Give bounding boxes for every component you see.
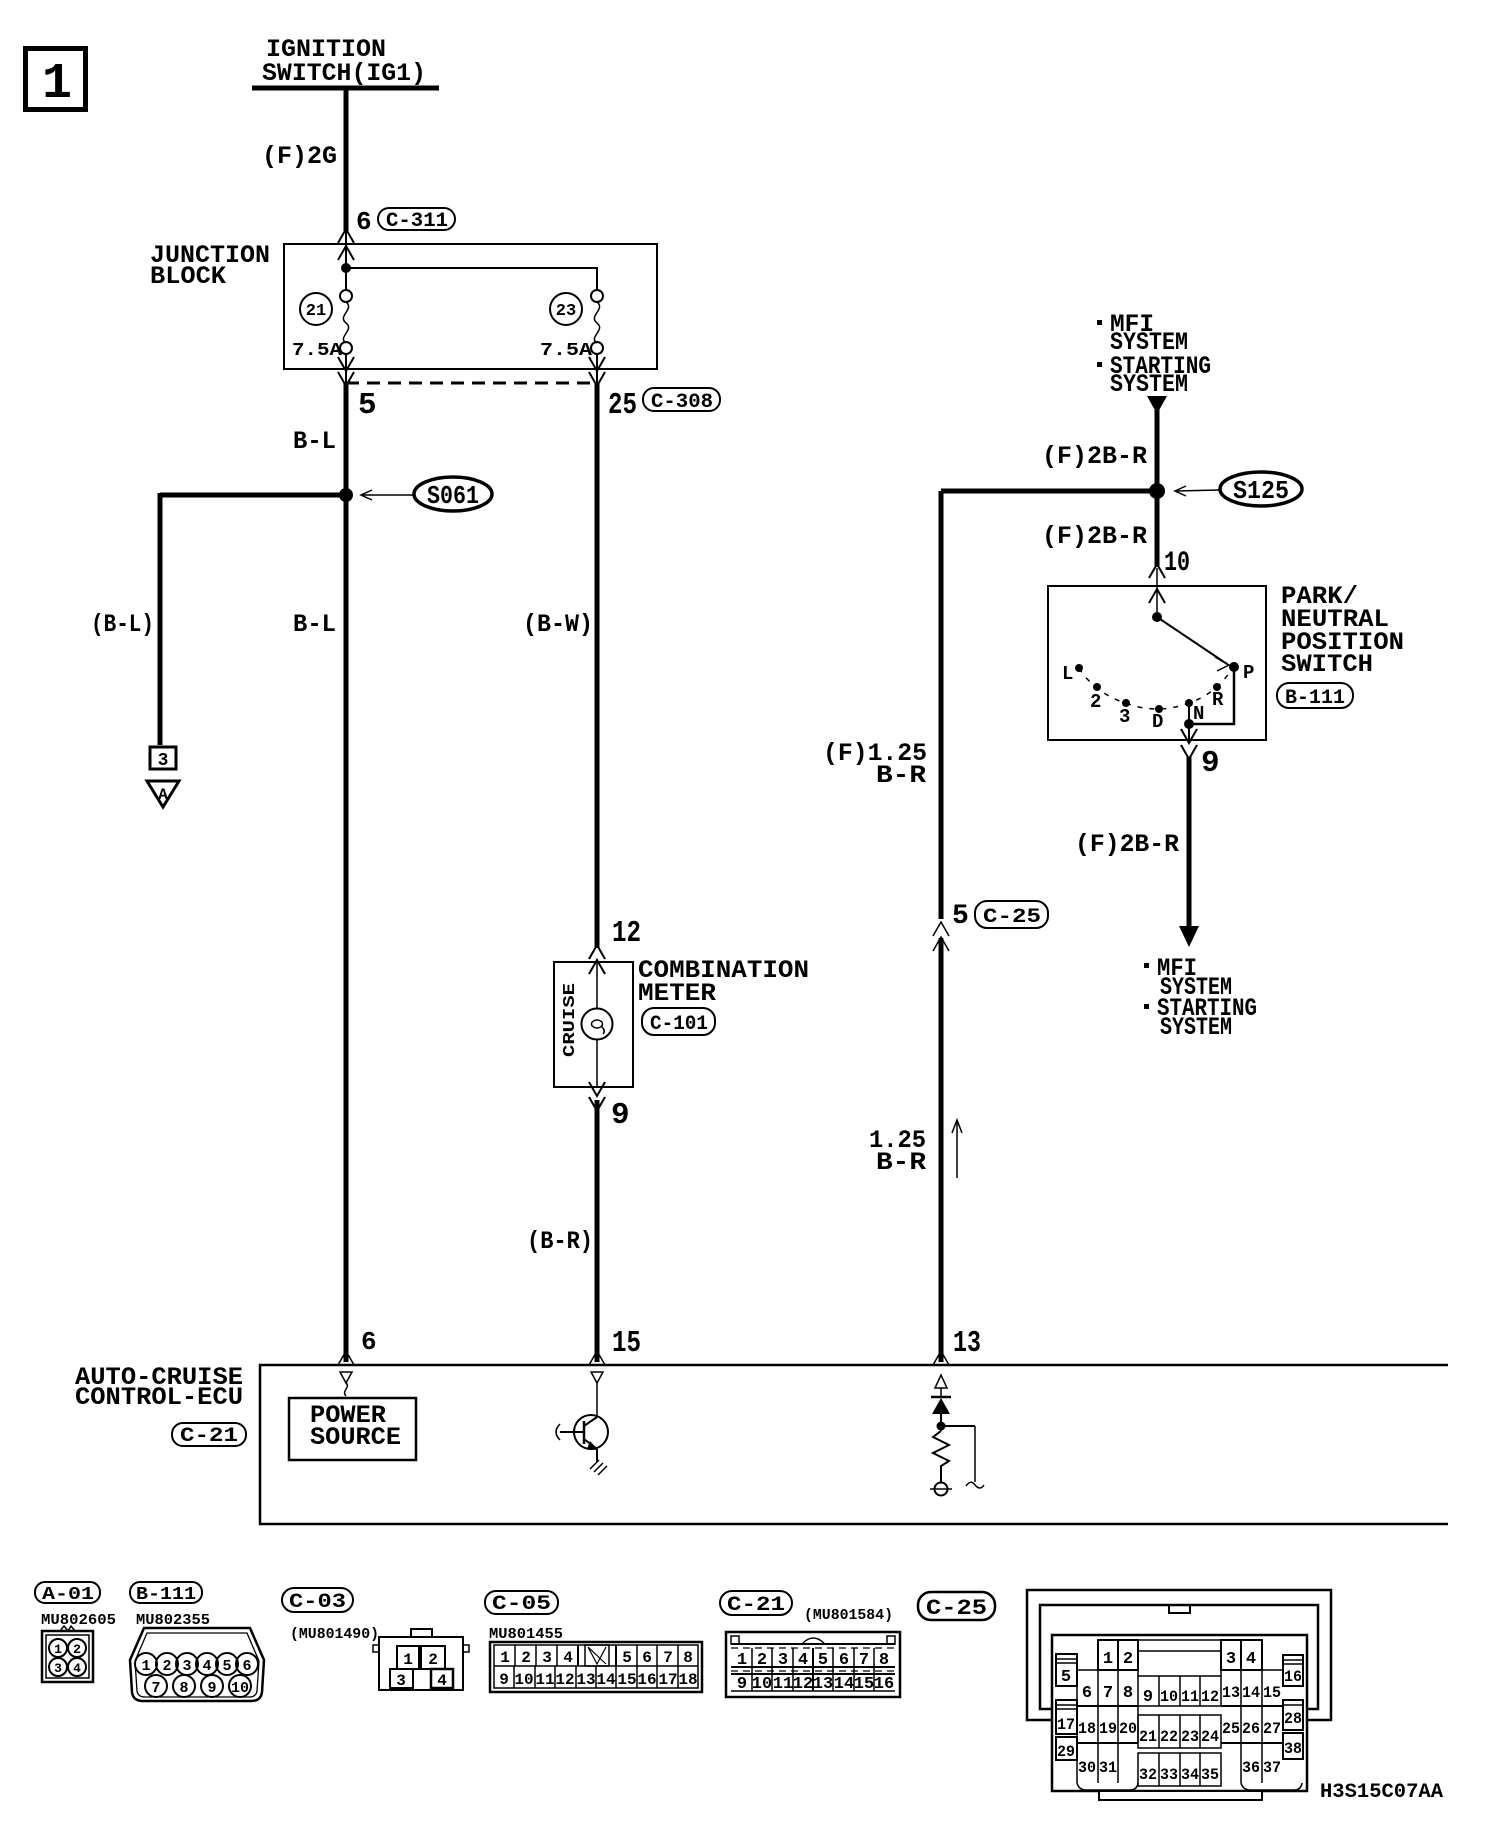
- svg-text:1: 1: [42, 56, 72, 113]
- svg-text:4: 4: [1246, 1650, 1256, 1669]
- svg-text:3: 3: [778, 1651, 788, 1670]
- svg-text:2: 2: [1090, 691, 1101, 713]
- svg-text:BLOCK: BLOCK: [150, 262, 226, 291]
- svg-text:10: 10: [231, 1680, 249, 1697]
- svg-text:2: 2: [73, 1642, 81, 1657]
- svg-text:15: 15: [1263, 1684, 1281, 1702]
- svg-text:2: 2: [162, 1658, 171, 1675]
- svg-text:32: 32: [1139, 1766, 1157, 1784]
- svg-text:SYSTEM: SYSTEM: [1110, 370, 1188, 399]
- svg-text:10: 10: [752, 1675, 772, 1694]
- svg-text:3: 3: [1226, 1650, 1236, 1669]
- svg-text:(F)2B-R: (F)2B-R: [1042, 442, 1147, 471]
- svg-text:7: 7: [1103, 1684, 1113, 1703]
- svg-text:21: 21: [1139, 1728, 1157, 1746]
- svg-text:3: 3: [158, 751, 169, 771]
- svg-text:6: 6: [1082, 1684, 1092, 1703]
- svg-text:4: 4: [437, 1672, 447, 1690]
- svg-text:6: 6: [356, 207, 372, 237]
- svg-text:C-05: C-05: [492, 1593, 551, 1616]
- svg-text:3: 3: [1119, 706, 1130, 728]
- svg-text:METER: METER: [638, 979, 716, 1008]
- svg-text:9: 9: [611, 1098, 630, 1133]
- svg-text:MU802605: MU802605: [41, 1612, 116, 1629]
- svg-text:5: 5: [222, 1658, 231, 1675]
- svg-text:A-01: A-01: [42, 1585, 94, 1605]
- svg-text:14: 14: [596, 1671, 616, 1689]
- svg-text:B-111: B-111: [1285, 687, 1345, 710]
- svg-text:SWITCH(IG1): SWITCH(IG1): [262, 59, 426, 88]
- svg-text:16: 16: [874, 1675, 894, 1694]
- svg-text:7: 7: [859, 1651, 869, 1670]
- svg-text:7: 7: [151, 1680, 160, 1697]
- svg-text:(F)2G: (F)2G: [262, 142, 337, 171]
- svg-text:B-111: B-111: [136, 1585, 196, 1605]
- svg-text:B-R: B-R: [876, 761, 926, 790]
- svg-text:18: 18: [1078, 1720, 1096, 1738]
- svg-text:10: 10: [514, 1671, 533, 1689]
- svg-text:(F)2B-R: (F)2B-R: [1042, 522, 1147, 551]
- svg-text:MU802355: MU802355: [136, 1612, 210, 1629]
- svg-text:16: 16: [1284, 1668, 1302, 1686]
- svg-text:27: 27: [1263, 1720, 1281, 1738]
- svg-text:S061: S061: [427, 481, 479, 511]
- svg-text:CONTROL-ECU: CONTROL-ECU: [75, 1383, 243, 1412]
- svg-text:R: R: [1212, 689, 1224, 711]
- svg-text:6: 6: [839, 1651, 849, 1670]
- svg-text:10: 10: [1164, 548, 1190, 579]
- svg-text:4: 4: [202, 1658, 211, 1675]
- svg-text:C-03: C-03: [289, 1591, 346, 1614]
- svg-text:38: 38: [1284, 1740, 1302, 1758]
- svg-text:N: N: [1193, 703, 1204, 725]
- svg-text:9: 9: [1143, 1688, 1153, 1707]
- svg-text:12: 12: [555, 1671, 574, 1689]
- svg-text:17: 17: [658, 1671, 677, 1689]
- svg-text:3: 3: [396, 1672, 406, 1690]
- svg-text:15: 15: [617, 1671, 636, 1689]
- svg-text:5: 5: [818, 1651, 828, 1670]
- svg-text:12: 12: [1201, 1688, 1219, 1706]
- svg-text:11: 11: [1181, 1688, 1199, 1706]
- svg-text:17: 17: [1057, 1716, 1075, 1734]
- svg-text:22: 22: [1160, 1728, 1178, 1746]
- svg-text:24: 24: [1201, 1728, 1219, 1746]
- svg-text:37: 37: [1263, 1759, 1281, 1777]
- svg-text:SWITCH: SWITCH: [1281, 650, 1373, 679]
- svg-text:8: 8: [879, 1651, 889, 1670]
- svg-text:1: 1: [141, 1658, 150, 1675]
- svg-text:11: 11: [773, 1675, 793, 1694]
- svg-text:13: 13: [813, 1675, 833, 1694]
- svg-text:9: 9: [737, 1675, 747, 1694]
- svg-text:H3S15C07AA: H3S15C07AA: [1320, 1781, 1443, 1804]
- svg-text:7.5A: 7.5A: [540, 341, 592, 361]
- svg-text:19: 19: [1099, 1720, 1117, 1738]
- svg-text:15: 15: [854, 1675, 874, 1694]
- svg-text:D: D: [1152, 711, 1163, 733]
- svg-text:8: 8: [179, 1680, 188, 1697]
- svg-text:36: 36: [1242, 1759, 1260, 1777]
- svg-text:12: 12: [612, 916, 641, 951]
- svg-text:1: 1: [737, 1651, 747, 1670]
- svg-text:28: 28: [1284, 1710, 1302, 1728]
- svg-text:CRUISE: CRUISE: [561, 983, 580, 1057]
- svg-text:20: 20: [1119, 1720, 1137, 1738]
- svg-text:3: 3: [542, 1649, 552, 1667]
- svg-text:2: 2: [757, 1651, 767, 1670]
- svg-text:4: 4: [563, 1649, 573, 1667]
- svg-text:25: 25: [1222, 1720, 1240, 1738]
- svg-text:15: 15: [612, 1326, 641, 1361]
- svg-text:13: 13: [1222, 1684, 1240, 1702]
- svg-text:(B-R): (B-R): [527, 1227, 593, 1256]
- svg-text:30: 30: [1078, 1759, 1096, 1777]
- svg-text:4: 4: [798, 1651, 808, 1670]
- svg-text:1: 1: [54, 1642, 62, 1657]
- svg-text:9: 9: [499, 1671, 509, 1689]
- svg-text:C-311: C-311: [386, 210, 448, 233]
- svg-text:23: 23: [556, 302, 576, 321]
- svg-text:29: 29: [1057, 1743, 1075, 1761]
- svg-text:5: 5: [358, 388, 377, 423]
- svg-text:C-25: C-25: [983, 906, 1041, 929]
- svg-text:12: 12: [793, 1675, 813, 1694]
- svg-text:6: 6: [642, 1649, 652, 1667]
- svg-text:13: 13: [576, 1671, 595, 1689]
- svg-text:(F)2B-R: (F)2B-R: [1075, 830, 1179, 859]
- svg-text:B-L: B-L: [293, 427, 336, 456]
- svg-text:8: 8: [1123, 1684, 1133, 1703]
- svg-text:(B-W): (B-W): [523, 610, 593, 639]
- svg-text:1: 1: [403, 1651, 413, 1669]
- svg-text:31: 31: [1099, 1759, 1117, 1777]
- svg-text:1: 1: [500, 1649, 510, 1667]
- svg-text:SYSTEM: SYSTEM: [1160, 1013, 1232, 1042]
- svg-text:14: 14: [1242, 1684, 1260, 1702]
- svg-text:25: 25: [608, 388, 637, 423]
- svg-text:C-101: C-101: [650, 1013, 708, 1036]
- svg-text:11: 11: [535, 1671, 554, 1689]
- svg-text:SOURCE: SOURCE: [310, 1423, 401, 1452]
- svg-text:35: 35: [1201, 1766, 1219, 1784]
- svg-text:S125: S125: [1233, 476, 1289, 506]
- svg-text:7.5A: 7.5A: [292, 341, 342, 361]
- svg-text:2: 2: [428, 1651, 438, 1669]
- svg-text:5: 5: [622, 1649, 632, 1667]
- svg-text:2: 2: [1123, 1650, 1133, 1669]
- svg-text:6: 6: [361, 1327, 377, 1357]
- svg-text:B-L: B-L: [293, 610, 336, 639]
- svg-text:1: 1: [1103, 1650, 1113, 1669]
- svg-text:7: 7: [663, 1649, 673, 1667]
- svg-text:C-21: C-21: [727, 1594, 785, 1617]
- svg-text:MU801455: MU801455: [489, 1626, 563, 1643]
- svg-text:10: 10: [1160, 1688, 1178, 1706]
- svg-text:21: 21: [306, 302, 326, 321]
- svg-text:3: 3: [182, 1658, 191, 1675]
- svg-text:L: L: [1062, 663, 1073, 685]
- svg-text:C-25: C-25: [926, 1596, 987, 1621]
- svg-text:8: 8: [683, 1649, 693, 1667]
- svg-text:2: 2: [521, 1649, 531, 1667]
- svg-text:14: 14: [834, 1675, 854, 1694]
- svg-text:33: 33: [1160, 1766, 1178, 1784]
- svg-text:13: 13: [953, 1326, 981, 1361]
- svg-text:C-21: C-21: [180, 1425, 238, 1448]
- svg-text:26: 26: [1242, 1720, 1260, 1738]
- svg-text:(B-L): (B-L): [91, 610, 154, 639]
- svg-text:C-308: C-308: [651, 391, 713, 414]
- svg-text:(MU801490): (MU801490): [290, 1626, 379, 1643]
- svg-text:18: 18: [678, 1671, 697, 1689]
- svg-text:3: 3: [54, 1661, 62, 1676]
- svg-text:34: 34: [1181, 1766, 1199, 1784]
- svg-text:23: 23: [1181, 1728, 1199, 1746]
- svg-text:16: 16: [637, 1671, 656, 1689]
- svg-text:5: 5: [952, 901, 969, 932]
- svg-text:9: 9: [1201, 746, 1220, 781]
- svg-text:B-R: B-R: [876, 1148, 926, 1177]
- svg-text:9: 9: [207, 1680, 216, 1697]
- svg-text:6: 6: [242, 1658, 251, 1675]
- svg-text:5: 5: [1061, 1668, 1071, 1687]
- svg-text:A: A: [158, 786, 168, 804]
- svg-text:(MU801584): (MU801584): [804, 1607, 893, 1624]
- svg-text:4: 4: [73, 1661, 81, 1676]
- svg-text:P: P: [1243, 662, 1254, 684]
